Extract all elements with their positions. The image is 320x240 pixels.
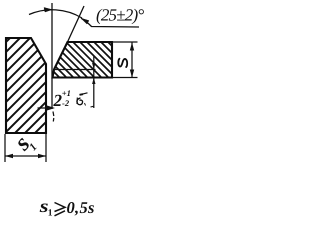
bottom extension line	[112, 77, 138, 79]
root face line	[54, 69, 96, 71]
top extension line	[112, 41, 138, 43]
label s	[118, 59, 127, 67]
svg-text:1: 1	[48, 209, 53, 219]
hatch left plate	[0, 0, 178, 140]
arc arrowhead left	[44, 8, 52, 13]
svg-text:-2: -2	[62, 98, 70, 108]
bevel extension line	[68, 6, 85, 42]
label s1	[9, 129, 39, 158]
angle dimension arc	[29, 10, 82, 18]
annotation squiggle	[80, 93, 88, 95]
s1 dimension line	[5, 155, 46, 157]
svg-text:+1: +1	[62, 88, 71, 98]
hatch right plate	[13, 38, 148, 82]
s1 extension lines	[4, 134, 6, 162]
svg-text:0,5s: 0,5s	[67, 198, 95, 217]
arc arrowhead right	[81, 18, 89, 24]
leader to angle label	[81, 18, 139, 27]
gap leader arrow	[38, 107, 50, 109]
dimension s line	[131, 43, 133, 78]
vertical reference line	[51, 3, 53, 109]
right plate outline	[53, 42, 113, 78]
root face dimension line	[93, 57, 95, 109]
left plate outline	[6, 38, 46, 133]
svg-text:(25±2)°: (25±2)°	[96, 6, 144, 25]
